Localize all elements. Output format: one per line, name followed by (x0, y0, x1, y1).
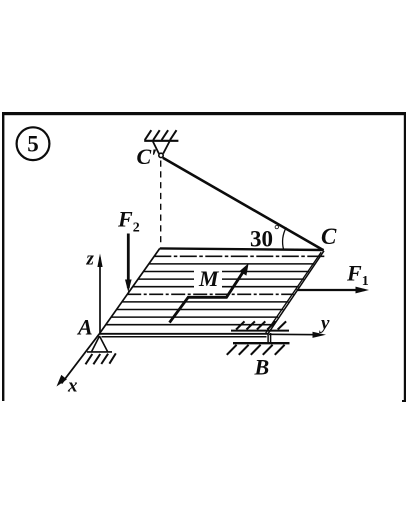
ground hatching below B (227, 345, 285, 355)
ground bar below B (233, 342, 290, 344)
angle arc at C (283, 227, 287, 249)
frame left border (2, 112, 4, 401)
plate right edge (double line) (266, 251, 324, 334)
svg-text:y: y (319, 313, 330, 334)
z axis (97, 254, 102, 335)
ground hatching below A (86, 353, 116, 364)
x axis (57, 334, 100, 387)
plate top edge (160, 248, 324, 250)
pin at C' (159, 153, 163, 157)
moment M arrow (170, 263, 249, 322)
figure number circle 5 (17, 127, 50, 160)
support rod at B (268, 333, 271, 343)
dashed vertical line from C' to plate (160, 161, 162, 247)
frame right border (402, 112, 406, 402)
svg-text:x: x (67, 376, 78, 397)
svg-text:z: z (86, 249, 95, 270)
y axis (269, 332, 326, 338)
support triangle at A (87, 336, 112, 352)
frame top border (2, 112, 406, 115)
svg-text:C′: C′ (137, 144, 158, 169)
cable C'C (163, 158, 324, 250)
ceiling anchor bar (144, 140, 178, 142)
force F2 arrow (downward) (125, 234, 132, 293)
plate surface hatch lines (106, 256, 325, 324)
plate left edge (99, 248, 160, 334)
svg-text:A: A (76, 315, 93, 340)
ledge hatching on plate near B (231, 321, 289, 330)
anchor bracket triangle (153, 142, 170, 154)
svg-text:5: 5 (27, 132, 39, 157)
svg-text:M: M (198, 266, 220, 291)
ceiling anchor hatching above C' (145, 130, 177, 140)
plate bottom edge (double line) (99, 334, 269, 337)
svg-text:C: C (321, 224, 337, 249)
label M (194, 266, 222, 291)
svg-text:B: B (254, 355, 270, 380)
force F1 arrow (rightward) (297, 287, 370, 294)
